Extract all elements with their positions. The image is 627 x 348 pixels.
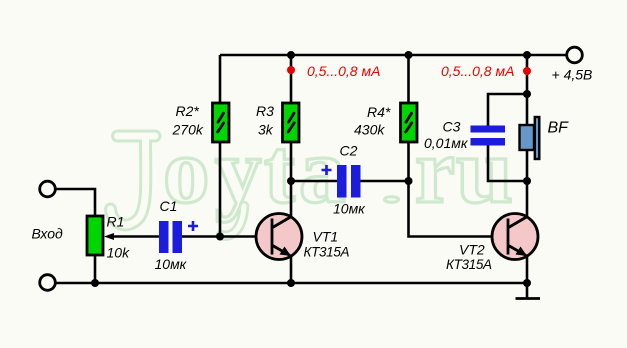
wire VT1 emitter down: [290, 255, 293, 283]
svg-text:VT1: VT1: [313, 229, 339, 245]
wire R4 top: [407, 55, 410, 103]
wire R2 top: [219, 55, 222, 103]
svg-text:10мк: 10мк: [333, 201, 366, 217]
svg-text:270k: 270k: [172, 122, 204, 138]
wire C2 right: [361, 180, 409, 183]
node VT1 emitter-rail: [287, 279, 295, 287]
measurement dot 2: [523, 67, 531, 75]
svg-text:C2: C2: [340, 143, 358, 159]
wire BF branch top: [526, 55, 529, 94]
resistor R3 3k: [283, 103, 300, 142]
terminal +4,5V: [567, 47, 583, 63]
svg-text:BF: BF: [548, 120, 570, 137]
svg-text:КТ315А: КТ315А: [446, 257, 492, 272]
wire top rail: [220, 54, 566, 57]
node rail-R4: [405, 51, 413, 59]
wire VT2 emitter down: [526, 255, 529, 283]
svg-text:R1: R1: [107, 214, 125, 230]
svg-text:R3: R3: [256, 103, 274, 119]
wire R2 bottom to base node: [219, 142, 222, 237]
svg-text:R4*: R4*: [367, 104, 391, 120]
speaker BF: [520, 117, 540, 159]
wire C1 to VT1 base: [182, 235, 272, 238]
wire bottom rail: [56, 282, 528, 285]
measurement dot 1: [287, 66, 295, 74]
svg-text:0,5...0,8 мА: 0,5...0,8 мА: [441, 63, 514, 79]
svg-text:C3: C3: [443, 119, 461, 135]
capacitor C1 10мк electrolytic: [159, 221, 198, 253]
node C2-R4: [405, 177, 413, 185]
svg-text:0,5...0,8 мА: 0,5...0,8 мА: [307, 63, 380, 79]
transistor VT1 КТ315А: [256, 214, 302, 260]
capacitor C3 0,01мк: [471, 126, 506, 146]
svg-text:0,01мк: 0,01мк: [424, 135, 469, 151]
terminal input top: [40, 181, 56, 197]
wire VT2 collector: [526, 181, 529, 217]
wire R3 top: [290, 55, 293, 103]
wire R3 bottom / VT1 collector: [290, 142, 293, 217]
terminal input bottom: [40, 275, 56, 291]
wire input top to R1: [56, 189, 96, 216]
svg-text:R2*: R2*: [176, 103, 200, 119]
capacitor C2 10мк electrolytic: [322, 165, 361, 198]
node R2-C1-base: [216, 233, 224, 241]
node rail-BF: [523, 51, 531, 59]
node R1-rail: [91, 279, 99, 287]
transistor VT2 КТ315А: [492, 214, 538, 260]
wire C3 top link: [488, 94, 527, 126]
svg-text:Вход: Вход: [32, 226, 64, 242]
resistor R1 10k potentiometer: [87, 216, 159, 255]
watermark Joyta.ru: [111, 120, 514, 236]
wire C2 left: [291, 180, 337, 183]
svg-text:VT2: VT2: [459, 242, 485, 258]
wire R4 bottom to VT2 base: [409, 142, 509, 237]
wire R1 bottom: [94, 255, 97, 283]
svg-text:430k: 430k: [354, 122, 385, 138]
svg-text:3k: 3k: [258, 122, 274, 138]
wire C3 bottom link: [488, 146, 527, 182]
svg-text:C1: C1: [160, 198, 178, 214]
svg-text:10k: 10k: [107, 245, 131, 261]
ground: [516, 283, 541, 299]
svg-text:КТ315А: КТ315А: [304, 245, 350, 260]
svg-text:10мк: 10мк: [155, 256, 188, 272]
node C3-BF top: [523, 90, 531, 98]
node rail-R3: [287, 51, 295, 59]
wire BF through: [526, 94, 529, 181]
node C3-BF bottom: [523, 177, 531, 185]
svg-text:+ 4,5В: + 4,5В: [552, 67, 593, 83]
resistor R4 430k: [401, 103, 418, 142]
node VT2 emitter-rail: [523, 279, 531, 287]
resistor R2 270k: [213, 103, 230, 142]
node C2-R3: [287, 177, 295, 185]
